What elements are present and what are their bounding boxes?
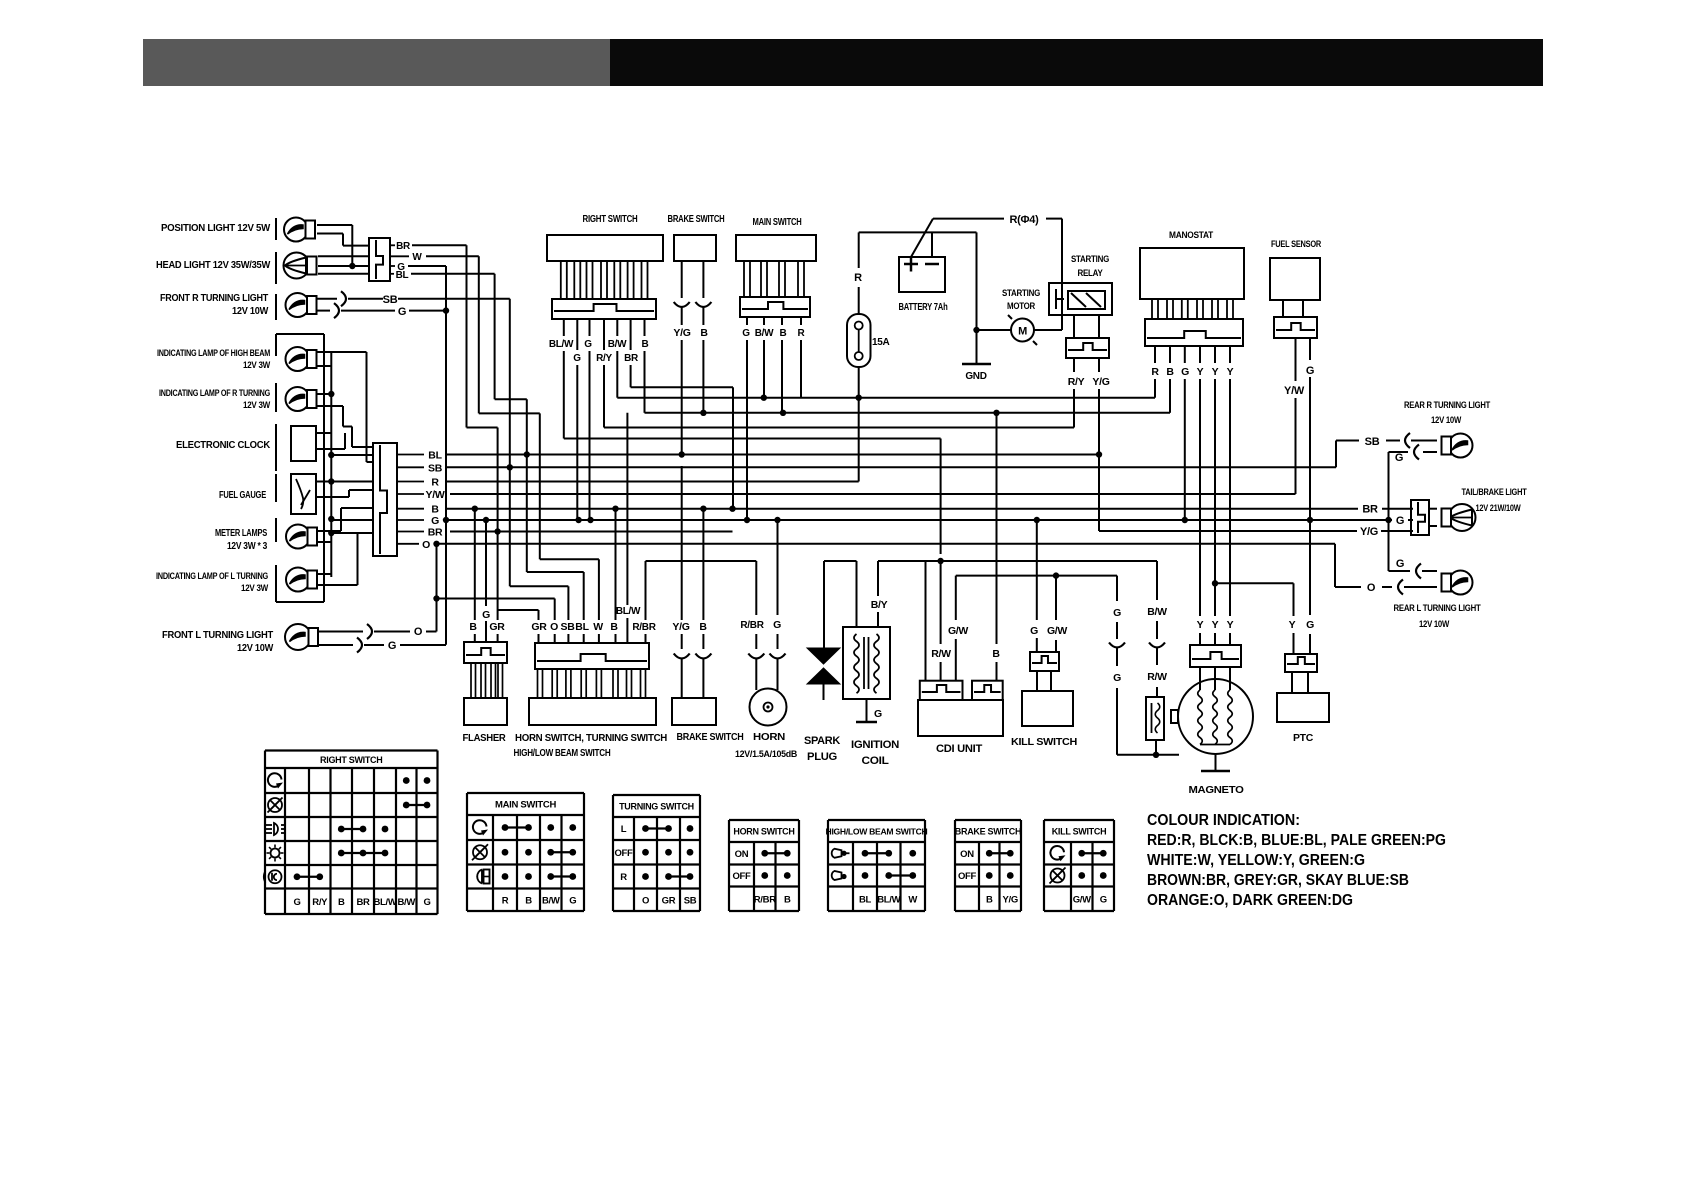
CDI connector right <box>972 681 1003 700</box>
svg-text:12V 21W/10W: 12V 21W/10W <box>1476 503 1522 513</box>
svg-text:G/W: G/W <box>1047 625 1067 637</box>
svg-text:R: R <box>502 895 509 906</box>
svg-text:Y: Y <box>1212 366 1219 378</box>
junction dot brake B <box>700 410 706 416</box>
wire motor to relay <box>1034 329 1062 331</box>
svg-text:IGNITION: IGNITION <box>851 739 899 751</box>
main switch connector <box>740 297 810 317</box>
svg-text:REAR L TURNING LIGHT: REAR L TURNING LIGHT <box>1394 603 1481 614</box>
svg-text:BATTERY 7Ah: BATTERY 7Ah <box>899 302 948 313</box>
svg-text:ELECTRONIC CLOCK: ELECTRONIC CLOCK <box>176 439 271 451</box>
junction dots cluster trunk <box>328 391 334 397</box>
lamp high beam indicator <box>286 347 310 371</box>
kill switch stubs <box>1036 671 1038 691</box>
svg-text:Y/W: Y/W <box>1284 385 1305 397</box>
svg-text:B: B <box>700 327 708 339</box>
battery plus symbol <box>904 263 918 266</box>
lamp R turning indicator <box>286 387 310 411</box>
svg-text:BL/W: BL/W <box>549 339 574 350</box>
break front L G <box>357 638 362 653</box>
junction dot resistor <box>1153 752 1159 758</box>
wire net BR to B-bus <box>631 386 733 388</box>
svg-text:B/Y: B/Y <box>871 599 888 611</box>
wire to starting motor <box>977 329 1012 331</box>
break G net <box>1109 643 1125 648</box>
ground symbol GND <box>962 363 991 366</box>
svg-text:INDICATING LAMP OF HIGH BEAM: INDICATING LAMP OF HIGH BEAM <box>157 348 270 358</box>
svg-text:B/W: B/W <box>608 339 627 350</box>
junction dot main B/W <box>761 395 767 401</box>
battery box <box>899 257 945 292</box>
svg-text:KILL SWITCH: KILL SWITCH <box>1052 827 1107 837</box>
table HORN SWITCH <box>729 819 799 821</box>
svg-text:METER LAMPS: METER LAMPS <box>215 528 267 539</box>
wire net O distribution <box>436 544 438 632</box>
svg-text:R: R <box>620 872 627 883</box>
svg-text:BL/W: BL/W <box>877 894 900 905</box>
table TURNING SWITCH <box>613 794 700 796</box>
svg-text:BR: BR <box>396 241 411 252</box>
bus G <box>447 519 1392 521</box>
svg-text:B: B <box>784 894 791 905</box>
svg-text:MOTOR: MOTOR <box>1007 301 1035 312</box>
pin label BL meter connector <box>397 454 424 456</box>
wire R turning pins <box>317 393 331 395</box>
svg-text:GR: GR <box>489 621 505 633</box>
wire GR bracket <box>498 609 539 611</box>
svg-text:L: L <box>621 824 627 835</box>
ignition coil box <box>843 627 890 699</box>
svg-text:BR: BR <box>428 527 443 539</box>
magneto circle <box>1178 679 1253 754</box>
svg-text:RIGHT SWITCH: RIGHT SWITCH <box>320 755 382 765</box>
wire position light top pin <box>317 224 352 226</box>
svg-text:BL: BL <box>575 621 589 633</box>
svg-text:12V 3W: 12V 3W <box>243 400 271 410</box>
svg-text:R/BR: R/BR <box>754 894 776 905</box>
svg-text:B: B <box>642 339 649 350</box>
wire O branch to switch connector <box>437 598 555 600</box>
wire B/W net right <box>1156 561 1158 600</box>
starting relay box <box>1049 283 1112 315</box>
svg-text:G: G <box>482 609 490 621</box>
header bar grey <box>143 39 610 86</box>
lamp position light <box>284 218 308 242</box>
wire net B/W long <box>617 397 1155 399</box>
svg-text:RELAY: RELAY <box>1078 268 1104 279</box>
bus BR <box>450 531 733 533</box>
right switch pin wires row1 <box>563 319 565 336</box>
svg-text:B/W: B/W <box>542 895 560 906</box>
svg-text:KILL SWITCH: KILL SWITCH <box>1011 736 1077 748</box>
wire CDI G/W line <box>956 575 1117 577</box>
svg-text:O: O <box>1367 582 1376 594</box>
svg-text:R/W: R/W <box>931 648 951 660</box>
lamp meter lamp <box>286 525 310 549</box>
svg-text:G: G <box>584 339 592 350</box>
svg-text:B: B <box>525 895 532 906</box>
svg-text:12V 3W * 3: 12V 3W * 3 <box>227 541 268 552</box>
pin label SB meter connector <box>397 466 424 468</box>
right switch pin wires row2 <box>576 319 578 350</box>
svg-text:HIGH/LOW BEAM SWITCH: HIGH/LOW BEAM SWITCH <box>514 748 611 759</box>
svg-text:MAIN SWITCH: MAIN SWITCH <box>753 217 802 228</box>
svg-text:HEAD LIGHT 12V 35W/35W: HEAD LIGHT 12V 35W/35W <box>156 259 270 271</box>
svg-text:G: G <box>398 306 406 318</box>
meter cluster box <box>276 333 324 335</box>
wire battery minus top <box>859 231 977 233</box>
wire net SB staircase <box>509 299 511 587</box>
connector head light 4-pin <box>369 238 390 281</box>
svg-text:MAIN SWITCH: MAIN SWITCH <box>495 800 557 811</box>
svg-text:BL: BL <box>428 450 442 462</box>
svg-text:G: G <box>1100 894 1107 905</box>
svg-text:G: G <box>1113 672 1121 684</box>
wire net R/Y long <box>604 427 1074 429</box>
wire G to trunk <box>409 310 446 312</box>
svg-text:GR: GR <box>531 621 547 633</box>
ignition coil left winding <box>856 561 858 627</box>
svg-text:OFF: OFF <box>958 871 977 882</box>
flasher stubs <box>471 663 476 698</box>
svg-text:W: W <box>908 894 917 905</box>
lamp rear L turning <box>1449 571 1473 595</box>
svg-text:12V 10W: 12V 10W <box>237 642 273 654</box>
svg-text:R/Y: R/Y <box>1068 376 1085 388</box>
svg-text:GR: GR <box>662 895 676 906</box>
svg-text:Y: Y <box>1197 366 1204 378</box>
svg-text:B: B <box>469 621 477 633</box>
svg-text:O: O <box>642 895 649 906</box>
svg-text:O: O <box>414 626 423 638</box>
main switch box <box>736 235 816 261</box>
fuse 15A body <box>847 314 871 367</box>
wire clock pins <box>316 432 331 434</box>
wire O to rear L <box>1334 544 1336 587</box>
break brake bottom Y/G <box>674 654 690 659</box>
break rear L O <box>1398 580 1403 595</box>
break rear R G <box>1414 445 1419 460</box>
manostat comb teeth <box>1152 299 1158 319</box>
break horn R/BR <box>748 654 764 659</box>
svg-text:SB: SB <box>428 462 443 474</box>
fuel sensor box <box>1270 258 1320 300</box>
svg-text:R/Y: R/Y <box>596 353 612 364</box>
svg-text:TAIL/BRAKE LIGHT: TAIL/BRAKE LIGHT <box>1462 487 1527 498</box>
svg-text:B: B <box>699 621 707 633</box>
svg-text:B/W: B/W <box>1147 606 1167 618</box>
lamp head light <box>284 253 310 279</box>
svg-text:G: G <box>874 708 882 720</box>
svg-text:ON: ON <box>735 849 749 860</box>
svg-text:SB: SB <box>383 294 398 306</box>
junction dot O branch <box>433 595 439 601</box>
svg-text:RED:R, BLCK:B, BLUE:BL, PALE G: RED:R, BLCK:B, BLUE:BL, PALE GREEN:PG <box>1147 832 1446 849</box>
svg-text:Y/G: Y/G <box>1360 526 1378 538</box>
svg-text:PLUG: PLUG <box>807 751 837 763</box>
svg-text:G: G <box>1030 625 1038 637</box>
bus R <box>447 481 859 483</box>
table RIGHT SWITCH <box>265 749 438 751</box>
electronic clock box <box>291 426 316 461</box>
svg-text:B: B <box>780 328 787 339</box>
svg-text:12V/1.5A/105dB: 12V/1.5A/105dB <box>735 749 797 760</box>
wire B/Y ignition coil <box>877 561 879 596</box>
CDI unit box <box>918 700 1003 736</box>
svg-text:R/BR: R/BR <box>632 622 656 633</box>
svg-text:BRAKE SWITCH: BRAKE SWITCH <box>955 827 1021 837</box>
svg-text:FRONT R TURNING LIGHT: FRONT R TURNING LIGHT <box>160 292 269 304</box>
svg-text:B/W: B/W <box>397 897 415 908</box>
svg-text:GND: GND <box>965 371 986 382</box>
PTC stubs <box>1291 672 1293 693</box>
wire gauge row to connector <box>331 481 373 483</box>
svg-text:COIL: COIL <box>862 755 890 767</box>
wire tail Y/G <box>1099 530 1357 532</box>
wire high beam pins <box>317 351 367 353</box>
svg-text:Y: Y <box>1227 619 1234 631</box>
svg-text:R: R <box>431 477 439 489</box>
pin label BR meter connector <box>397 531 424 533</box>
wire head light pin BL <box>318 273 369 275</box>
svg-text:B: B <box>610 621 618 633</box>
svg-text:BR: BR <box>356 897 370 908</box>
magneto ground stem <box>1215 754 1217 771</box>
svg-text:G: G <box>1396 515 1404 527</box>
svg-text:BL: BL <box>859 894 872 905</box>
svg-text:12V 3W: 12V 3W <box>241 583 269 593</box>
wire R/BR pin bracket <box>645 561 647 620</box>
svg-text:Y: Y <box>1197 619 1204 631</box>
wire CDI feed from coil line <box>925 561 927 680</box>
svg-text:PTC: PTC <box>1293 732 1314 744</box>
wire net G vertical <box>445 266 447 645</box>
lamp front L turning light <box>285 624 311 650</box>
brake switch top box <box>674 235 716 261</box>
svg-text:O: O <box>422 539 430 551</box>
wire head light pin BR <box>318 255 369 257</box>
svg-text:W: W <box>412 252 422 263</box>
svg-text:FUEL GAUGE: FUEL GAUGE <box>219 489 266 501</box>
fuel sensor stubs <box>1282 300 1284 317</box>
svg-text:12V 10W: 12V 10W <box>1431 415 1462 425</box>
svg-text:R(Φ4): R(Φ4) <box>1010 214 1040 226</box>
svg-text:ORANGE:O, DARK GREEN:DG: ORANGE:O, DARK GREEN:DG <box>1147 892 1353 909</box>
pin label O meter connector <box>397 543 419 545</box>
junction dot main B <box>780 410 786 416</box>
label BR <box>390 244 395 246</box>
svg-text:G/W: G/W <box>1073 894 1091 905</box>
wire CDI R/W pin <box>940 561 942 644</box>
fuel sensor connector <box>1274 317 1317 338</box>
wire CDI G/W pin <box>955 576 957 620</box>
svg-text:OFF: OFF <box>614 848 633 859</box>
svg-text:TURNING SWITCH: TURNING SWITCH <box>619 802 694 812</box>
break horn G <box>770 654 786 659</box>
kill switch connector <box>1030 652 1059 671</box>
magneto left tab <box>1171 710 1178 723</box>
wire front L O <box>319 631 363 633</box>
svg-text:Y/G: Y/G <box>1092 376 1109 388</box>
svg-text:G: G <box>423 897 430 908</box>
wire coil-CDI line <box>878 560 1157 562</box>
spark plug symbol <box>807 648 840 664</box>
horn/turning switch comb teeth <box>538 669 543 698</box>
svg-text:R: R <box>854 272 862 284</box>
relay contact <box>1055 289 1057 309</box>
svg-text:G: G <box>573 353 581 364</box>
kill switch wires <box>1036 520 1038 620</box>
connector meter 8-pin <box>373 443 397 556</box>
relay stubs <box>1073 315 1075 338</box>
svg-text:RIGHT SWITCH: RIGHT SWITCH <box>583 214 638 225</box>
junction dot fuse R <box>856 395 862 401</box>
svg-text:12V 10W: 12V 10W <box>1419 619 1450 629</box>
fuel sensor pin wires <box>1295 338 1297 381</box>
brake switch bottom wires <box>681 466 683 620</box>
lamp L turning indicator <box>286 568 310 592</box>
pin label R meter connector <box>397 481 424 483</box>
table BRAKE SWITCH <box>955 819 1021 821</box>
wire net BL/W to CDI <box>564 438 941 440</box>
svg-text:WHITE:W, YELLOW:Y, GREEN:G: WHITE:W, YELLOW:Y, GREEN:G <box>1147 852 1365 869</box>
svg-text:G: G <box>1181 366 1189 378</box>
fuel gauge box <box>291 474 316 514</box>
wire trunk rows to connector <box>331 519 373 521</box>
table MAIN SWITCH <box>467 792 584 794</box>
magneto coil stubs <box>1199 667 1201 690</box>
flasher wires <box>474 509 476 620</box>
svg-text:R/BR: R/BR <box>740 620 764 631</box>
svg-text:SB: SB <box>1365 436 1380 448</box>
svg-text:G: G <box>431 515 439 527</box>
wire BR to trunk <box>412 244 467 246</box>
right switch box <box>547 235 663 261</box>
svg-text:B: B <box>1166 366 1174 378</box>
svg-text:MANOSTAT: MANOSTAT <box>1169 230 1213 241</box>
horn wires <box>755 561 757 615</box>
brake switch top wires <box>681 261 683 298</box>
svg-text:SPARK: SPARK <box>804 735 840 747</box>
bus Y/W <box>450 493 1296 495</box>
svg-text:G: G <box>388 640 396 652</box>
wire G net right <box>1116 576 1118 601</box>
svg-text:BRAKE SWITCH: BRAKE SWITCH <box>677 732 744 743</box>
lamp front R turning light <box>286 293 310 317</box>
wire net BR staircase <box>466 245 468 427</box>
wire battery plus diagonal R(phi4) <box>911 219 933 257</box>
wire SB to rear R <box>1335 441 1337 468</box>
svg-text:CDI UNIT: CDI UNIT <box>936 743 983 755</box>
ignition coil core bars <box>863 637 865 689</box>
label W <box>390 255 409 257</box>
svg-text:M: M <box>1018 326 1027 338</box>
brake switch bottom box <box>672 698 716 725</box>
svg-text:Y/G: Y/G <box>1003 894 1018 905</box>
lamp tail/brake <box>1429 508 1437 510</box>
main switch pin wires <box>746 317 748 325</box>
wire trunk to connector row <box>366 352 368 462</box>
svg-text:R/Y: R/Y <box>312 897 328 908</box>
svg-text:COLOUR INDICATION:: COLOUR INDICATION: <box>1147 812 1300 829</box>
wire net W staircase <box>478 256 480 413</box>
svg-text:G: G <box>1395 452 1403 464</box>
label G(head) <box>390 265 395 267</box>
svg-text:12V 10W: 12V 10W <box>232 305 268 317</box>
svg-text:R: R <box>798 328 806 339</box>
fuel gauge needle <box>296 479 303 509</box>
svg-text:HORN: HORN <box>753 731 785 743</box>
bus B / tail BR <box>447 508 1358 510</box>
svg-text:ON: ON <box>960 849 974 860</box>
wire clock to connector <box>331 454 373 456</box>
bus BL <box>447 454 1099 456</box>
break brake top B <box>695 302 711 307</box>
svg-text:BR: BR <box>624 353 639 364</box>
svg-text:G: G <box>742 328 750 339</box>
svg-text:FRONT L TURNING LIGHT: FRONT L TURNING LIGHT <box>162 629 274 641</box>
svg-text:SB: SB <box>561 621 576 633</box>
svg-text:BRAKE SWITCH: BRAKE SWITCH <box>668 214 725 225</box>
svg-text:B: B <box>338 897 345 908</box>
wire GND branch <box>976 232 978 364</box>
junction dot position/head <box>349 263 355 269</box>
junction dot Y branch <box>1212 580 1218 586</box>
PTC connector <box>1285 654 1317 672</box>
bus SB <box>447 466 1336 468</box>
wire front L G <box>319 644 353 646</box>
right switch comb teeth <box>561 261 567 299</box>
svg-text:12V 3W: 12V 3W <box>243 360 271 370</box>
wire front R G <box>317 310 330 312</box>
flasher box <box>464 698 507 725</box>
wire CDI B pin <box>996 413 998 644</box>
lamp rear R turning <box>1411 440 1437 442</box>
svg-text:G: G <box>773 619 781 631</box>
wire G to net <box>400 644 446 646</box>
magneto windings <box>1198 690 1203 744</box>
svg-text:BROWN:BR, GREY:GR, SKAY BLUE:S: BROWN:BR, GREY:GR, SKAY BLUE:SB <box>1147 872 1409 889</box>
spark plug bracket <box>824 560 857 562</box>
junction dot kill G/W <box>1053 572 1059 578</box>
svg-text:Y/G: Y/G <box>672 621 689 633</box>
pin label Y/W meter connector <box>397 493 424 495</box>
svg-text:Y: Y <box>1212 619 1219 631</box>
wire L turn pins <box>318 573 332 575</box>
break front R SB <box>341 291 346 306</box>
svg-text:G/W: G/W <box>948 625 968 637</box>
kill switch box <box>1022 691 1073 726</box>
junction dot GND/motor <box>973 327 979 333</box>
PTC box <box>1277 693 1329 722</box>
horn/turning switch connector <box>535 643 649 669</box>
wire SB to trunk <box>398 298 510 300</box>
wire cluster trunk common <box>330 352 332 577</box>
svg-text:FLASHER: FLASHER <box>463 733 507 744</box>
table KILL SWITCH <box>1044 819 1114 821</box>
ignition coil right winding <box>874 634 879 693</box>
svg-text:POSITION LIGHT 12V 5W: POSITION LIGHT 12V 5W <box>161 222 270 234</box>
break rear R SB <box>1405 433 1410 448</box>
wire front R SB <box>317 298 337 300</box>
svg-text:STARTING: STARTING <box>1071 254 1109 265</box>
svg-text:BR: BR <box>1362 504 1378 516</box>
starting motor M circle <box>1011 319 1034 342</box>
svg-text:G: G <box>569 895 576 906</box>
manostat box <box>1140 248 1244 299</box>
junction dots on buses <box>524 451 530 457</box>
table HIGH/LOW BEAM SWITCH <box>828 819 925 821</box>
